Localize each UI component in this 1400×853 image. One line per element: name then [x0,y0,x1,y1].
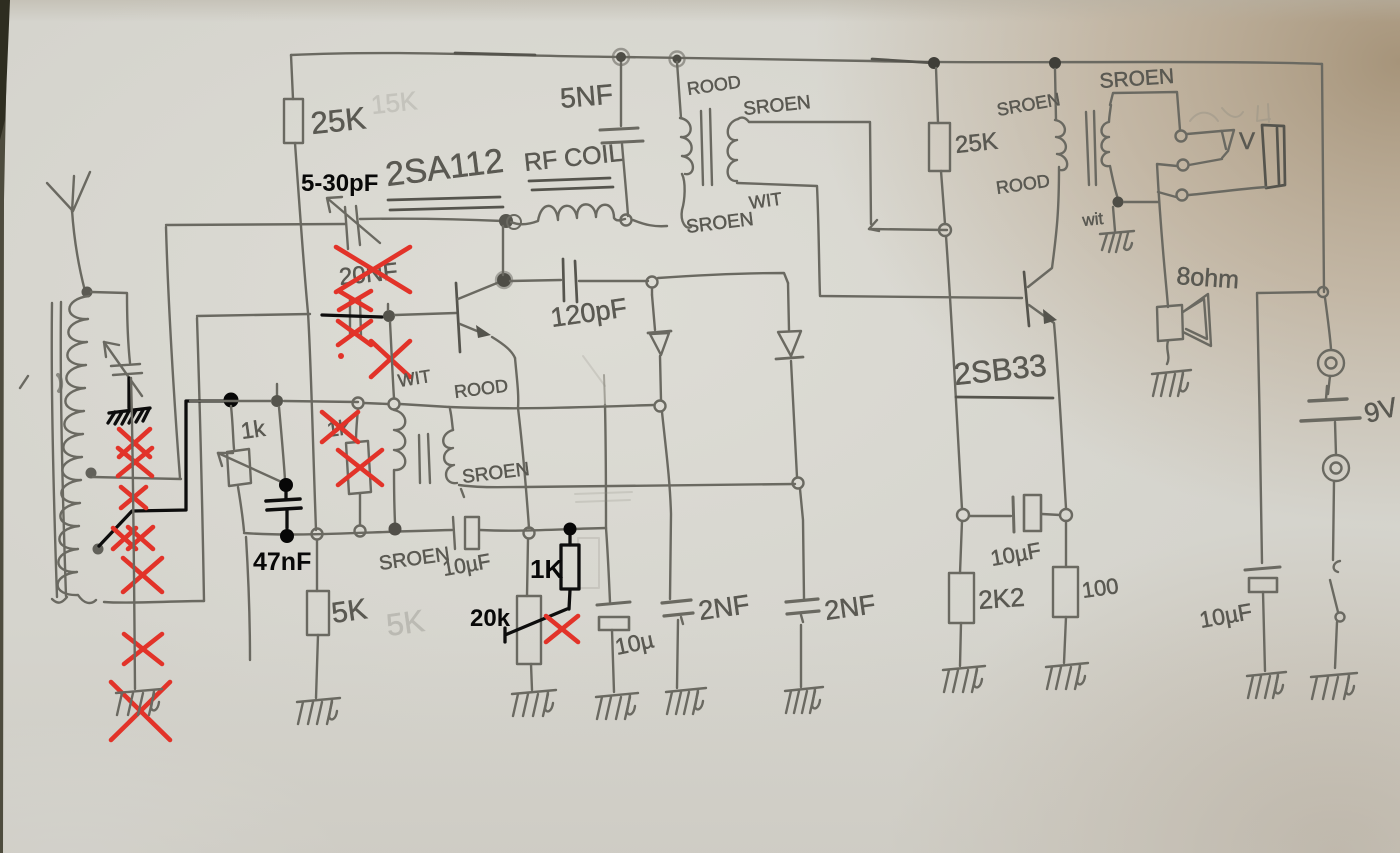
label 2SB33 underline [956,397,1053,398]
node coil tap upper dot [86,468,97,479]
wire contact2 to plug tail [1189,159,1222,165]
wire 100 to ground [1064,617,1066,663]
svg-text:1K: 1K [530,554,563,584]
resistor 1K black added [561,536,579,589]
node junction circle battery top [1318,287,1328,297]
resistor 100 body [1053,567,1078,617]
transformer T2 interstage left winding [394,410,405,523]
red X over 20NF label [336,247,410,292]
wire base line black overdraw [322,315,382,317]
red X column 6 [124,634,162,664]
node junction circle 10uF bridge left [957,509,969,521]
wire coil bottom to vertical [104,601,204,603]
wire vertical from base line down to coil bottom [197,318,204,601]
wire rail darker overdraw segments [455,53,934,63]
capacitor 5NF [600,60,643,216]
node contact circle jack 3 [1177,190,1188,201]
wire contact3 to vertical [1158,192,1176,197]
resistor 2K2 body [949,573,974,623]
transistor Q2 2SB33 base bar [1024,272,1029,326]
svg-text:5NF: 5NF [559,78,614,113]
node Q1 collector dot [497,273,511,287]
node junction circle D1 top [647,277,658,288]
ground under switch [1311,673,1357,699]
transistor Q2 emitter with arrow [1029,305,1066,508]
wire base line pencil left [197,314,310,316]
wire antenna lead vertical through Xs [131,378,135,689]
red X 20NF upper [339,291,371,310]
red X column double 4 [113,527,153,549]
red X small on wiper [546,616,578,642]
node junction circle D2 bottom [793,478,804,489]
red X column on antenna lead 2 [118,448,152,476]
red X column on antenna lead 1 [119,429,150,457]
svg-text:100: 100 [1080,573,1120,603]
resistor 5K lead [316,540,318,591]
wire collector node to 120pF [510,280,561,281]
svg-text:2K2: 2K2 [977,582,1025,615]
capacitor 120pF plates [563,259,577,302]
node junction circle WIT [389,399,400,410]
switch contact and blade [1330,561,1345,668]
ground under 10u mid [596,693,638,719]
node junction circle ROOD line right [655,401,666,412]
transistor Q1 collector [458,281,502,299]
ferrite rod lines [52,302,67,603]
node contact circle jack 1 [1176,131,1187,142]
ground under wit [1100,207,1134,252]
wire battery to switch [1333,481,1334,560]
node junction circle bus at crossed resistor [355,526,366,537]
wire bus corner down to 10u mid [606,528,610,602]
svg-text:5K: 5K [384,603,427,643]
capacitor 10uF bridge [969,495,1060,532]
wire ROOD line [449,405,654,408]
node junction blob at pot top [271,395,283,407]
speaker cone [1183,294,1211,346]
node junction circle bus at R1 [312,529,323,540]
wire rail right edge down [1322,64,1324,292]
headphone plug V symbol [1187,130,1234,158]
label RF COIL underline [529,178,613,190]
wire Q1 emitter down to bus [515,358,529,528]
node base line junction blob [383,310,395,322]
wire top supply rail [291,53,1322,64]
capacitor trimmer 5-30pF plates [345,206,360,249]
capacitor trimmer arrow [327,197,380,243]
ghost erased resistor box [575,356,632,588]
antenna [47,172,90,291]
ground under 20k [512,690,556,716]
stray pencil dash [20,376,28,388]
transistor Q1 emitter with arrow [460,324,515,358]
resistor R1 25K body [284,99,303,143]
svg-text:wit: wit [1080,209,1104,230]
resistor 5K body [307,591,329,635]
red X over crossed resistor [338,450,382,485]
speaker tail squiggle [1167,341,1168,364]
transformer T1 primary lead [677,62,681,118]
transformer T2 interstage core [419,434,430,483]
wire jack bar bottom to contact3 [1189,187,1266,195]
node junction circle bus at T2 winding [389,523,402,536]
resistor 100 lead [1065,521,1067,567]
resistor R2 25K lead [936,68,938,123]
capacitor 10u mid electrolytic [597,602,630,692]
transformer T2 interstage right winding [443,430,457,483]
wire bus 47nF line [244,528,606,535]
node antenna junction dot [82,287,93,298]
ground under 2NF first [666,688,706,714]
node black dot junction bus left [224,393,239,408]
node junction circle 10uF bridge right [1060,509,1072,521]
wire black added from cap to ground [127,378,130,408]
wire 120pF to D1 node [579,280,648,282]
wire contact2 to speaker vertical [1157,164,1177,307]
wire bus y401 pencil [190,401,449,407]
wire coil tap to trimmer line vertical [93,227,181,479]
svg-text:15K: 15K [369,85,419,120]
node junction circle RF line right [621,215,632,226]
capacitor 10uF right [1245,567,1280,671]
svg-text:5-30pF: 5-30pF [301,170,378,197]
wire black 20k wiper [505,590,570,642]
transformer T3 secondary winding [1102,105,1119,199]
wire T3 secondary top to jack [1110,92,1180,130]
wire T3 bottom dot to vertical [1124,201,1158,203]
node RF line dot [499,214,513,228]
red X 20NF right lower [371,341,410,377]
capacitor 47nF black symbol [266,492,301,528]
wire long vertical R2 to 2K2 [946,236,962,509]
ground under 2K2 [943,666,985,692]
node rail dot at T3 [1049,57,1061,69]
potentiometer 20k pencil body [517,539,541,690]
variable capacitor tuning [104,342,142,396]
diode D1 [648,295,671,400]
wire to 10uF right branch [1257,292,1318,563]
wire ghost vertical erased resistor [605,405,606,528]
wire junction down to 47nF node [279,407,285,480]
transformer T1 secondary winding [728,119,738,181]
node T3 secondary bottom dot [1113,197,1124,208]
svg-text:47nF: 47nF [253,548,311,576]
battery 9V cell [1301,376,1360,421]
wire T2 right winding top hook to ROOD [450,409,453,430]
paper left dark edge [0,0,8,853]
capacitor 10uF coupling pencil [453,517,479,549]
wire pencil stub above pot junction [276,384,278,396]
wire D2 down to 2NF2 [800,489,804,599]
wire 5K to ground [316,635,318,698]
wire base line to Q1 [395,313,456,315]
wire D1 node to D2 [658,273,788,283]
svg-text:5K: 5K [330,593,370,630]
wire T1 secondary top to 25K2 bottom [738,118,879,231]
resistor 2K2 lead [960,521,962,573]
speaker box [1157,305,1183,341]
red X over crossed 1k label [322,412,358,442]
node contact circle jack 2 [1178,160,1189,171]
wire D1 node down to 2NF1 [662,412,671,599]
ground black added [108,408,150,424]
transformer T3 output primary lead [1055,69,1056,120]
ground under speaker [1152,370,1191,396]
wire RF line to transformer tail [633,220,667,226]
node rail dot at T1 [673,55,682,64]
wire battery lead top [1325,298,1331,349]
node junction circle crossed resistor top [353,398,364,409]
node black dot 47nF top [279,478,293,492]
svg-text:1k: 1k [239,415,267,444]
node rail dot at 25K2 [928,57,940,69]
capacitor 20NF plates crossed out [350,299,361,336]
wire collector node to RF line [502,226,504,275]
node junction circle bus at emitter [524,528,535,539]
red X column 5 [123,558,162,592]
ground under 2NF second [785,687,823,713]
transformer T3 primary winding [1055,120,1067,170]
ground under 10uF right [1247,672,1286,698]
resistor R1 25K top lead [291,55,293,99]
wire 2K2 to ground [960,623,961,666]
resistor crossed out 1k body [346,409,371,525]
wire trimmer line to left corner [166,224,345,225]
inductor L1 antenna coil [58,296,96,603]
battery terminal top [1318,350,1344,376]
capacitor 2NF first [662,600,693,688]
node black dot 47nF bottom [280,529,294,543]
ground under 5K [297,698,340,724]
wire SROEN line long [459,484,795,497]
red dot small [338,353,344,359]
potentiometer 1k pencil [218,406,286,660]
wire R1 bottom long vertical to bus [295,143,316,530]
transistor Q2 collector [1028,167,1059,287]
node junction circle R2 bottom [939,224,951,236]
node rail dot at 5NF [616,52,626,62]
transformer T3 core [1086,111,1096,185]
wire T1 secondary bottom to Q2 base [737,183,1022,298]
red X big over ground [111,682,170,740]
battery terminal bottom [1323,422,1349,481]
svg-text:25K: 25K [309,100,368,141]
wire black added bus jumper to coil tap [99,401,231,546]
node black dot 1K top [564,523,577,536]
svg-text:8ohm: 8ohm [1176,262,1240,294]
ground pencil antenna bottom [116,689,162,715]
headphone jack bar [1262,125,1285,188]
wire horizontal into 25K2 bottom junction [869,229,947,230]
diode D2 [776,283,803,477]
transformer T1 primary winding [680,118,693,174]
wire RF line trimmer to collector node [360,219,503,221]
svg-text:25K: 25K [954,128,999,159]
node coil tap lower dot [93,544,104,555]
wire R2 bottom lead [941,171,945,224]
transformer T1 primary tail [682,174,691,228]
red X column small 3 [121,487,146,508]
transistor Q1 2SA112 base bar [456,283,460,352]
wire antenna to tuning cap [91,292,130,363]
ground under 100 [1046,663,1088,689]
transformer T1 core [701,109,712,185]
red X 20NF lower [338,321,371,345]
capacitor 2NF second [786,599,819,687]
inductor RF coil [511,204,625,224]
ghost erased marks above jack [1190,104,1270,122]
resistor R2 25K body [929,123,950,171]
svg-text:V: V [1239,128,1255,155]
label 2SA112 underline [388,197,503,210]
